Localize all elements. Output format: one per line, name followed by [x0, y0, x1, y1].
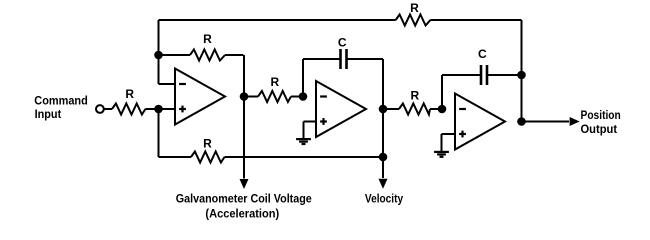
svg-text:C: C	[338, 35, 347, 49]
node U3 input junction	[438, 105, 447, 114]
wire node A vertical	[158, 20, 160, 84]
wire node B down to velocity feedback	[158, 109, 160, 157]
wire U2 output down to velocity node	[382, 109, 384, 157]
svg-text:Position: Position	[581, 108, 621, 122]
svg-text:Command: Command	[34, 94, 88, 108]
svg-text:Input: Input	[35, 107, 62, 121]
wire U1 feedback down to output node	[243, 55, 245, 97]
svg-text:Velocity: Velocity	[365, 192, 403, 206]
svg-text:R: R	[203, 32, 212, 46]
wire velocity tap	[382, 157, 384, 178]
arrow acceleration tap	[240, 179, 249, 189]
node U2 input junction	[299, 92, 308, 101]
svg-text:R: R	[125, 87, 134, 101]
wire U3 non-inverting input to ground	[442, 133, 456, 135]
node B junction	[154, 105, 163, 114]
svg-text:C: C	[478, 47, 487, 61]
svg-text:R: R	[410, 1, 419, 15]
capacitor C (U3 integrator)	[441, 75, 443, 109]
node U1 output junction	[240, 92, 249, 101]
arrow position output	[570, 117, 580, 126]
node U3 output junction	[517, 117, 526, 126]
arrow velocity tap	[379, 179, 388, 189]
wire U1 output down to acceleration tap	[243, 97, 245, 179]
node A junction	[154, 51, 163, 60]
resistor R (position feedback)	[396, 15, 431, 26]
ground U2	[296, 138, 311, 140]
svg-text:R: R	[410, 89, 419, 103]
op-amp U2	[316, 81, 366, 137]
op-amp U3	[455, 94, 505, 150]
node U3 feedback junction	[517, 71, 526, 80]
input terminal	[96, 105, 104, 113]
capacitor C (U2 integrator)	[302, 59, 304, 97]
svg-text:Output: Output	[581, 122, 618, 136]
svg-text:R: R	[203, 137, 212, 151]
node U2 output junction	[379, 105, 388, 114]
ground U3	[434, 151, 449, 153]
wire U3 output to position arrow	[522, 121, 570, 123]
resistor R (U2 to U3)	[383, 108, 399, 110]
op-amp U1	[175, 69, 225, 125]
resistor R (command input)	[104, 108, 112, 110]
wire output column vertical	[521, 20, 523, 122]
resistor R (U1 local feedback)	[159, 54, 191, 56]
wire to op-amp U1 inverting input	[159, 83, 177, 85]
svg-text:(Acceleration): (Acceleration)	[205, 206, 279, 220]
wire U2 non-inverting input to ground	[304, 121, 317, 123]
wire top feedback to output column	[430, 19, 521, 21]
resistor R (U1 to U2)	[244, 96, 258, 98]
svg-text:Galvanometer Coil Voltage: Galvanometer Coil Voltage	[176, 192, 312, 206]
wire to op-amp U1 non-inverting input	[159, 108, 177, 110]
svg-text:R: R	[270, 75, 279, 89]
wire global feedback top	[159, 19, 396, 21]
resistor R (velocity feedback)	[159, 156, 192, 158]
node velocity junction	[379, 153, 388, 162]
